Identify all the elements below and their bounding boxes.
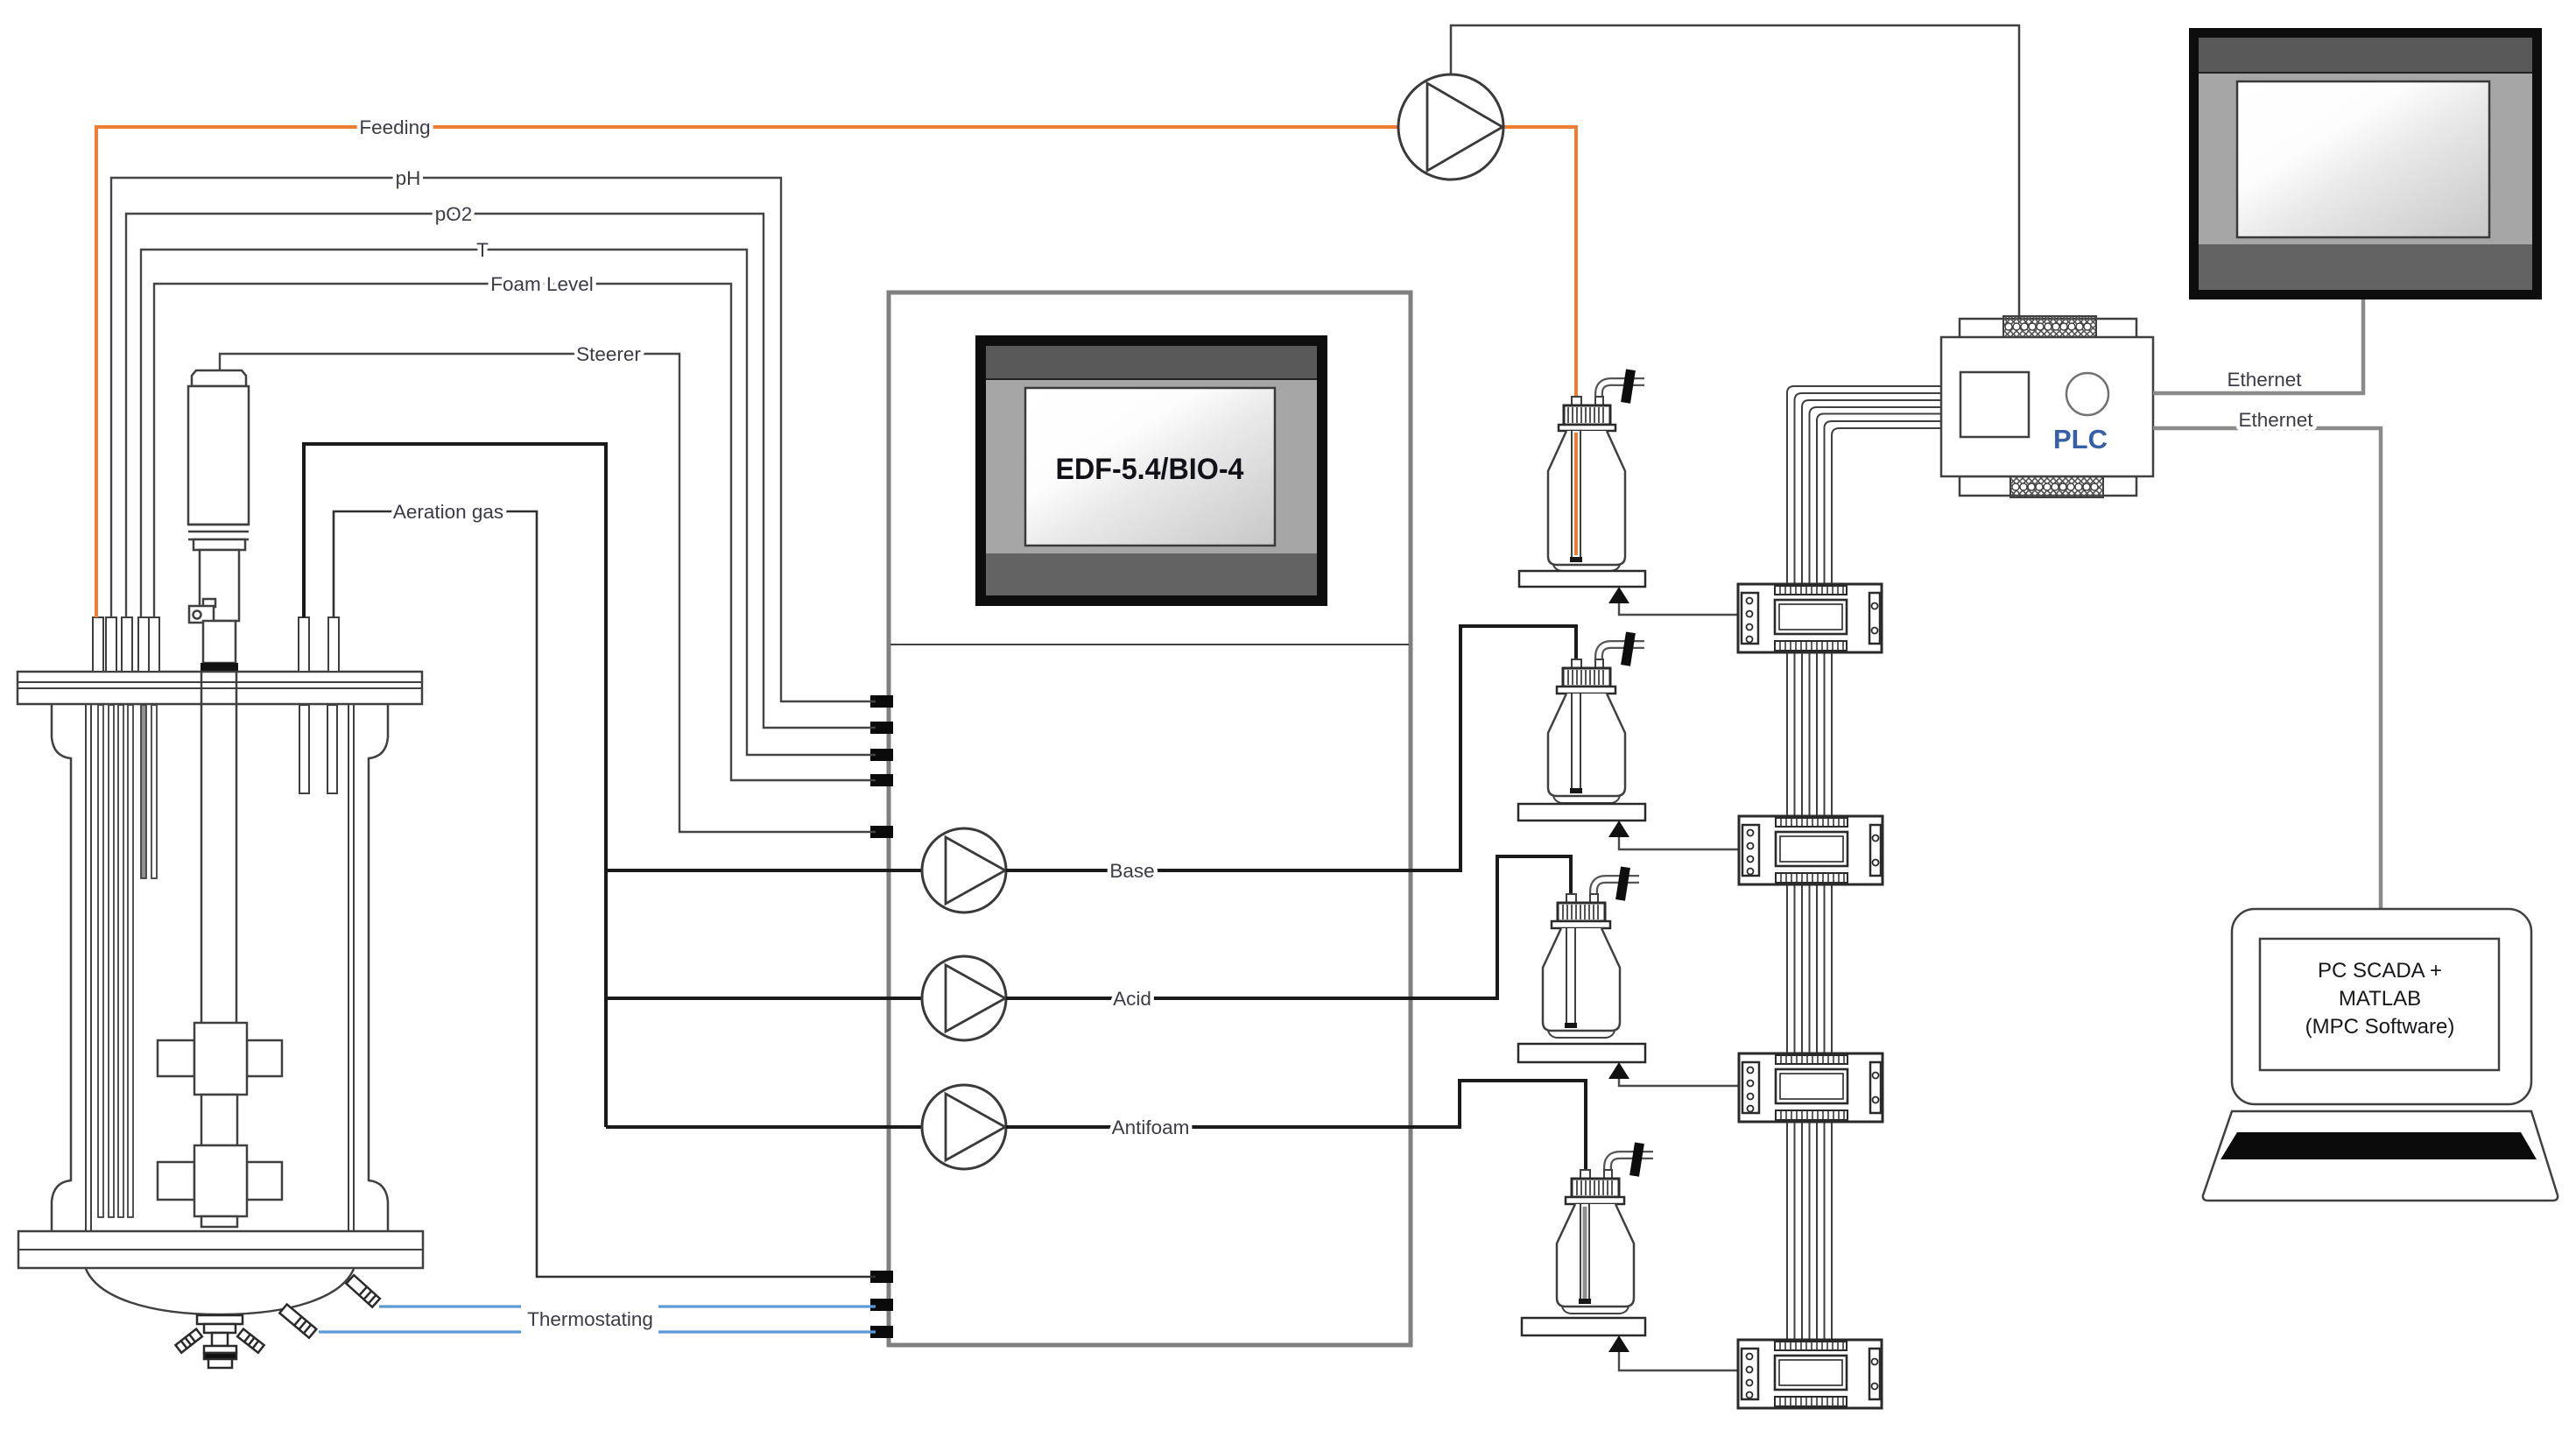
port nipple 2 xyxy=(106,617,116,672)
sparger tube B xyxy=(327,705,337,793)
probe tube 2 xyxy=(109,705,114,1217)
cabinet input stub Aeration xyxy=(870,1271,893,1283)
motor clamp bracket xyxy=(189,599,215,623)
motor coupling xyxy=(203,621,236,663)
shaft between impellers xyxy=(201,1095,237,1145)
svg-text:Feeding: Feeding xyxy=(359,116,430,138)
wire Base to bottle2 xyxy=(1006,626,1576,870)
arrow B2 to scale2 xyxy=(1608,821,1739,849)
wire Antifoam to bottle4 xyxy=(1006,1081,1586,1172)
cabinet EDF-5.4/BIO-4 enclosure xyxy=(889,292,1411,1345)
wire Foam Level xyxy=(154,284,876,780)
pump Antifoam xyxy=(922,1085,1006,1169)
probe tube 4 xyxy=(128,705,133,1217)
bottom flange xyxy=(18,1231,423,1268)
impeller 2 xyxy=(158,1145,282,1216)
svg-text:Steerer: Steerer xyxy=(576,343,641,365)
svg-text:Thermostating: Thermostating xyxy=(527,1308,653,1330)
cabinet input stub pH xyxy=(870,695,893,708)
headplate flange xyxy=(18,672,422,704)
svg-text:Acid: Acid xyxy=(1113,988,1151,1010)
probe tube 6 xyxy=(151,705,157,878)
tray B4 xyxy=(1522,1318,1645,1335)
svg-text:EDF-5.4/BIO-4: EDF-5.4/BIO-4 xyxy=(1056,453,1244,486)
cabinet input stub Steerer xyxy=(870,826,893,838)
wire pump to PLC xyxy=(1451,25,2019,318)
svg-text:Aeration gas: Aeration gas xyxy=(393,501,503,523)
orange dip tube bottle1 xyxy=(1574,405,1578,560)
motor gasket xyxy=(201,663,238,673)
cabinet input stub pO2 xyxy=(870,722,893,734)
tray B1 xyxy=(1519,571,1645,587)
scale S4 xyxy=(1738,1340,1882,1408)
label PC SCADA MATLAB xyxy=(2305,959,2455,1039)
wire Base pump inlet xyxy=(606,869,922,872)
cabinet input stub Thermo1 xyxy=(870,1299,893,1311)
svg-text:Ethernet: Ethernet xyxy=(2227,369,2302,391)
wire Thermostating 1 blue xyxy=(379,1305,876,1307)
bottle B3 acid xyxy=(1543,866,1640,1038)
wire Antifoam pump inlet xyxy=(606,1125,922,1129)
probe tube 1 xyxy=(98,705,103,1217)
cable bundle scales to PLC xyxy=(1787,386,1941,584)
wire Ethernet PLC to laptop xyxy=(2153,428,2381,909)
cable bundle between scale3 scale4 xyxy=(1787,1122,1832,1340)
probe tube 3 xyxy=(118,705,123,1217)
port nipple 1 xyxy=(93,617,103,672)
vessel outer wall right xyxy=(369,705,388,1231)
scale S2 xyxy=(1739,816,1883,884)
tray B2 xyxy=(1518,804,1645,821)
svg-text:MATLAB: MATLAB xyxy=(2339,987,2421,1011)
wire Steerer xyxy=(220,354,876,832)
port nipple 4 xyxy=(138,617,149,672)
port nipple 5 xyxy=(149,617,159,672)
gray dip tube inside bottle B4 xyxy=(1583,1207,1587,1299)
cabinet input stub T xyxy=(870,749,893,761)
bottle B1 feeding xyxy=(1548,369,1645,571)
bottom dome xyxy=(86,1269,354,1314)
wire Aeration gas xyxy=(334,511,876,1277)
wire reactor feed manifold xyxy=(304,444,606,1127)
vessel outer wall left xyxy=(52,705,71,1231)
svg-text:Foam Level: Foam Level xyxy=(490,273,594,295)
port nipple aeration xyxy=(328,617,339,672)
cabinet input stub Thermo2 xyxy=(870,1326,893,1338)
svg-text:T: T xyxy=(476,239,489,261)
stirrer shaft xyxy=(201,673,236,1023)
cabinet input stub Foam xyxy=(870,774,893,786)
port nipple 3 xyxy=(122,617,132,672)
sparger tube A xyxy=(299,705,309,793)
wire Acid to bottle3 xyxy=(1006,856,1571,998)
laptop PC SCADA xyxy=(2203,909,2558,1201)
bottle B2 base xyxy=(1548,631,1645,803)
probe tube 5 gray xyxy=(141,705,146,878)
svg-text:(MPC Software): (MPC Software) xyxy=(2305,1015,2455,1039)
svg-text:Base: Base xyxy=(1109,860,1154,882)
svg-text:pH: pH xyxy=(396,167,421,189)
tray B3 xyxy=(1518,1044,1645,1062)
wire Thermostating 2 blue xyxy=(319,1330,876,1333)
svg-text:Ethernet: Ethernet xyxy=(2238,409,2313,431)
arrow B4 to scale4 xyxy=(1608,1335,1738,1370)
wire T xyxy=(141,250,876,755)
cable bundle between scale2 scale3 xyxy=(1787,881,1832,1053)
impeller 1 xyxy=(158,1023,282,1095)
wire Ethernet PLC to monitor xyxy=(2153,299,2363,393)
thermostating nozzle upper xyxy=(346,1275,379,1307)
svg-text:PC SCADA +: PC SCADA + xyxy=(2318,959,2442,983)
bottle B4 antifoam xyxy=(1557,1142,1654,1314)
drain valve xyxy=(175,1315,264,1368)
wire pO2 xyxy=(126,214,876,728)
monitor display xyxy=(2189,28,2542,299)
vessel inner wall right xyxy=(348,705,354,1231)
scale S1 xyxy=(1738,584,1882,652)
svg-text:PLC: PLC xyxy=(2053,424,2108,454)
wire pH xyxy=(111,178,876,701)
orange feed inside bottle B1 xyxy=(1574,433,1578,555)
scale S3 xyxy=(1739,1053,1883,1122)
pump Acid xyxy=(922,956,1006,1040)
vessel inner wall left xyxy=(86,705,91,1231)
thermostating nozzle lower xyxy=(279,1304,316,1337)
wire Feeding orange xyxy=(96,127,1576,617)
svg-text:pO2: pO2 xyxy=(435,203,473,225)
cable bundle between scale1 scale2 xyxy=(1787,652,1832,816)
EDF touchscreen panel frame xyxy=(975,335,1327,606)
shaft tip xyxy=(201,1216,237,1227)
pump Base xyxy=(922,828,1006,912)
arrow B3 to scale3 xyxy=(1608,1062,1739,1086)
pump P-feed top xyxy=(1398,74,1503,180)
arrow B1 to scale1 xyxy=(1608,587,1738,615)
port nipple base-line xyxy=(299,617,309,672)
stirrer motor M1 xyxy=(188,370,249,621)
wire Acid pump inlet xyxy=(606,997,922,1000)
svg-text:Antifoam: Antifoam xyxy=(1112,1117,1190,1138)
PLC controller xyxy=(1941,316,2153,497)
